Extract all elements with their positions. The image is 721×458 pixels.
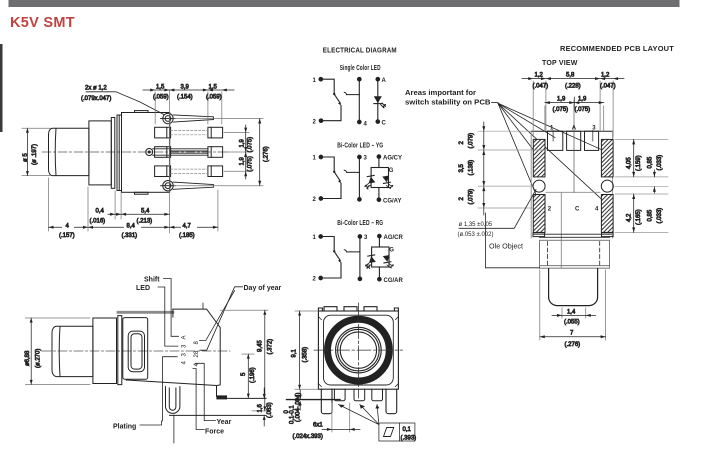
pad upper-right	[601, 139, 613, 177]
seating datum line	[287, 399, 341, 401]
svg-text:(.331): (.331)	[122, 233, 138, 239]
svg-text:AG/CY: AG/CY	[383, 155, 402, 161]
dim ø6,88	[25, 318, 90, 384]
svg-text:R: R	[366, 265, 371, 271]
svg-text:ELECTRICAL DIAGRAM: ELECTRICAL DIAGRAM	[323, 46, 397, 55]
button circle outer	[336, 327, 382, 373]
pcb top line	[227, 397, 267, 399]
schematic 2 : switch	[319, 155, 393, 202]
svg-text:(.059): (.059)	[206, 95, 222, 101]
Ole Object frame	[486, 213, 540, 268]
top tabs	[324, 307, 377, 311]
dimensions of top-left view	[22, 84, 270, 239]
body outline sides	[530, 131, 532, 238]
leader LED	[158, 287, 178, 346]
bottom dim row 0,4 / 5,4	[108, 191, 169, 219]
top row 1,2 / 5,8 / 1,2	[522, 77, 624, 137]
svg-text:3: 3	[182, 344, 188, 348]
svg-text:2: 2	[313, 277, 317, 283]
svg-text:Shift: Shift	[144, 277, 160, 284]
svg-text:5,4: 5,4	[141, 209, 150, 215]
svg-text:(.075): (.075)	[248, 156, 254, 172]
dim 6x1	[322, 403, 360, 432]
svg-text:(.033): (.033)	[657, 155, 663, 171]
dim 9,45	[221, 310, 269, 411]
svg-text:(ø.053 ±.002): (ø.053 ±.002)	[458, 232, 494, 238]
terminal row2 left	[155, 147, 171, 158]
svg-text:(.393): (.393)	[401, 436, 417, 442]
svg-text:1: 1	[313, 235, 317, 241]
leg right	[386, 389, 397, 414]
svg-text:0,1: 0,1	[403, 427, 412, 433]
pcb drawing	[531, 100, 613, 306]
peg centerline	[173, 415, 175, 443]
svg-text:CG/AR: CG/AR	[384, 278, 404, 284]
bezel plate	[123, 318, 148, 380]
svg-text:Bi-Color LED – YG: Bi-Color LED – YG	[337, 141, 383, 150]
svg-text:1,4: 1,4	[567, 309, 576, 315]
svg-text:2: 2	[459, 197, 465, 201]
terminal row1 right end	[208, 127, 223, 138]
node 2	[319, 119, 323, 123]
clip arm bottom	[173, 182, 213, 189]
LED window inner	[131, 334, 142, 369]
svg-text:ø 1,35 ±0,05: ø 1,35 ±0,05	[459, 222, 493, 228]
wire contact to common (with hook)	[344, 92, 359, 94]
svg-text:9,1: 9,1	[291, 348, 297, 357]
svg-text:(.024x.393): (.024x.393)	[293, 434, 323, 440]
svg-text:(.079): (.079)	[469, 133, 475, 149]
svg-text:6x1: 6x1	[313, 423, 323, 429]
button cap face line	[58, 326, 61, 376]
pad lower-left	[533, 195, 545, 233]
LED G (down)	[383, 255, 391, 263]
bezel ring 1	[111, 118, 115, 189]
bezel frame corners	[324, 315, 394, 385]
peg inner	[169, 388, 176, 410]
svg-text:0,4: 0,4	[96, 209, 105, 215]
schematic 1 : switch	[319, 77, 386, 123]
svg-text:1,5: 1,5	[156, 84, 165, 90]
crosshair	[314, 303, 403, 398]
svg-text:1,5: 1,5	[209, 84, 218, 90]
hole circle top (2x ø1,2)	[161, 113, 176, 123]
svg-text:9,45: 9,45	[257, 340, 263, 352]
common wire 4	[358, 79, 360, 122]
svg-text:3: 3	[364, 156, 368, 162]
svg-text:(.358): (.358)	[302, 347, 308, 363]
svg-text:2: 2	[313, 197, 317, 203]
svg-text:ø 5: ø 5	[23, 153, 29, 162]
svg-text:CG/AY: CG/AY	[383, 198, 401, 204]
terminal row2 right end	[208, 147, 223, 158]
foot 2	[354, 389, 365, 401]
terminal row3 right end	[208, 166, 223, 177]
svg-text:G: G	[389, 248, 394, 254]
left dims 2 / 3,5 / 2	[478, 122, 547, 215]
svg-text:1: 1	[313, 156, 317, 162]
dim 7 bottom	[540, 270, 606, 340]
bezel ring	[328, 319, 390, 381]
svg-text:(.157): (.157)	[59, 233, 75, 239]
wire pin1 to pivot	[321, 79, 334, 93]
svg-text:(.079): (.079)	[469, 189, 475, 205]
svg-text:A: A	[182, 335, 188, 339]
collar	[93, 318, 117, 384]
bi-color LED D2 package	[377, 155, 381, 159]
leader Force	[193, 369, 204, 430]
dim 5	[242, 354, 254, 398]
svg-text:2: 2	[313, 119, 317, 125]
actuator outline (gray)	[546, 192, 600, 268]
leader Year	[195, 363, 215, 420]
LED R (up)	[368, 255, 376, 263]
dim 1,4 bottom	[552, 308, 596, 318]
leg left	[321, 389, 332, 414]
svg-text:(.154): (.154)	[177, 95, 193, 101]
dim ø5 left	[22, 128, 50, 175]
svg-text:4,2: 4,2	[627, 213, 633, 222]
button cap	[52, 326, 93, 376]
header bar	[9, 0, 680, 7]
svg-text:(.033): (.033)	[657, 208, 663, 224]
svg-text:1,2: 1,2	[535, 73, 544, 79]
svg-text:2: 2	[459, 141, 465, 145]
svg-text:(.016): (.016)	[90, 219, 106, 225]
svg-text:3,9: 3,9	[181, 84, 190, 90]
button circle inner	[340, 332, 376, 368]
svg-text:0,85: 0,85	[647, 156, 653, 168]
leader Day of year (x2)	[200, 287, 243, 350]
svg-text:(.138): (.138)	[469, 160, 475, 176]
dims	[25, 310, 273, 426]
bi-color LED D3 package	[378, 234, 382, 238]
leader fan to pads	[492, 103, 611, 207]
svg-text:C: C	[575, 207, 580, 213]
wire blade to pin2	[323, 106, 342, 121]
svg-text:A: A	[572, 126, 577, 132]
svg-text:Bi-Color LED – RG: Bi-Color LED – RG	[337, 218, 383, 227]
svg-text:28: 28	[194, 350, 200, 357]
body top tab	[135, 111, 149, 113]
flatness frame with leaders	[339, 405, 415, 442]
svg-text:G: G	[389, 168, 394, 174]
svg-text:(.047): (.047)	[533, 84, 549, 90]
node C	[376, 120, 380, 124]
center line	[573, 100, 575, 192]
body outline top	[531, 130, 612, 132]
body bottom edge	[533, 233, 612, 235]
LED D1 anode wire	[376, 77, 380, 81]
hidden edges in flange	[548, 242, 600, 268]
svg-text:K5V SMT: K5V SMT	[10, 15, 75, 31]
svg-text:2: 2	[548, 207, 552, 213]
svg-text:1,9: 1,9	[240, 138, 246, 147]
svg-text:ø6,88: ø6,88	[25, 350, 31, 366]
bezel ring strip	[118, 316, 122, 385]
node 1	[319, 77, 323, 81]
svg-text:(ø .197): (ø .197)	[32, 144, 38, 165]
svg-text:(.079x.047): (.079x.047)	[81, 96, 111, 102]
pcb bottom line	[170, 414, 267, 416]
svg-text:Areas important for: Areas important for	[405, 90, 476, 97]
gray flange top band	[118, 311, 173, 314]
bezel ring 2	[117, 115, 122, 191]
foot 3	[372, 389, 383, 401]
body bottom tab	[135, 192, 149, 194]
svg-text:(.165): (.165)	[636, 209, 642, 225]
svg-text:1,9: 1,9	[240, 156, 246, 165]
svg-text:1,9: 1,9	[557, 97, 566, 103]
dims of pcb view	[459, 73, 668, 349]
svg-text:1,2: 1,2	[601, 73, 610, 79]
button below (U)	[549, 269, 598, 306]
hole circle bottom	[161, 181, 176, 191]
flange below	[540, 240, 610, 268]
svg-text:(.075): (.075)	[553, 107, 569, 113]
svg-text:(.159): (.159)	[636, 155, 642, 171]
svg-text:Single Color LED: Single Color LED	[340, 63, 381, 72]
right dims 4,05 / 0,85 / 4,2 / 0,85	[615, 139, 668, 232]
pin hole A	[567, 131, 581, 150]
pin hole 1	[548, 131, 563, 150]
hole right ø1,35	[601, 180, 613, 192]
node 4	[358, 120, 362, 124]
node top	[358, 77, 362, 81]
hole left ø1,35	[533, 180, 545, 192]
collar	[89, 121, 111, 185]
svg-text:0,85: 0,85	[647, 209, 653, 221]
right dim (.276)	[174, 119, 263, 186]
switch blade S1	[333, 93, 335, 95]
left page tab	[0, 44, 3, 132]
marking digits rotated	[182, 335, 201, 366]
svg-text:3,5: 3,5	[459, 163, 465, 172]
dim 1,6	[263, 388, 266, 426]
leader 3 lower	[163, 357, 178, 421]
svg-text:(.276): (.276)	[264, 146, 270, 162]
LED window outer	[128, 331, 144, 372]
hidden edges row3	[171, 169, 208, 173]
svg-text:(.059): (.059)	[153, 95, 169, 101]
schematic 3 : switch	[319, 234, 394, 281]
pad lower-right	[601, 195, 613, 233]
body	[122, 113, 170, 193]
body front	[318, 311, 398, 389]
svg-text:(.185): (.185)	[179, 233, 195, 239]
foot 1	[334, 389, 345, 401]
svg-text:A: A	[382, 78, 387, 84]
svg-text:(ø.270): (ø.270)	[36, 349, 42, 368]
button circle mid	[338, 329, 380, 371]
svg-text:Y: Y	[366, 186, 370, 192]
svg-text:(.276): (.276)	[565, 342, 581, 348]
svg-text:3: 3	[182, 353, 188, 357]
terminal row1 left	[155, 127, 171, 138]
hidden edges row1	[171, 131, 208, 135]
body outline	[126, 309, 220, 385]
svg-text:(.228): (.228)	[565, 84, 581, 90]
terminal row3 left	[155, 166, 171, 177]
svg-text:4,05: 4,05	[627, 157, 633, 169]
svg-text:Day of year: Day of year	[244, 285, 282, 292]
body right lower corner	[216, 386, 218, 397]
svg-text:(.372): (.372)	[267, 339, 273, 355]
svg-text:AG/CR: AG/CR	[384, 235, 404, 241]
foot step left	[533, 233, 545, 237]
leader Plating	[140, 421, 162, 425]
svg-text:4: 4	[364, 121, 368, 127]
svg-text:5: 5	[241, 372, 247, 376]
svg-text:LED: LED	[136, 285, 150, 292]
right dims 1,9 1,9	[224, 125, 249, 179]
peg outer	[166, 387, 180, 414]
svg-text:(.213): (.213)	[137, 219, 153, 225]
svg-text:4: 4	[182, 361, 188, 365]
center pin rivet	[146, 149, 153, 156]
foot step right	[602, 233, 614, 237]
svg-text:4,7: 4,7	[183, 224, 192, 230]
svg-text:1,6: 1,6	[258, 403, 264, 412]
svg-text:(.063): (.063)	[267, 402, 273, 418]
pad upper-left	[533, 139, 545, 177]
svg-text:Year: Year	[217, 419, 232, 426]
flange top edge	[540, 236, 610, 238]
svg-text:4: 4	[595, 207, 599, 213]
button cap face line	[54, 128, 57, 175]
svg-text:Plating: Plating	[113, 424, 136, 431]
svg-text:8: 8	[194, 341, 200, 345]
svg-text:2x ø 1,2: 2x ø 1,2	[85, 86, 107, 92]
svg-text:(.055): (.055)	[564, 320, 580, 326]
clip arm top	[173, 115, 213, 122]
svg-text:(.047): (.047)	[600, 84, 616, 90]
svg-text:(.004-.004): (.004-.004)	[296, 393, 302, 422]
svg-text:TOP VIEW: TOP VIEW	[542, 58, 578, 67]
svg-text:(.075): (.075)	[575, 107, 591, 113]
svg-text:switch stability on PCB: switch stability on PCB	[405, 100, 491, 107]
center pin shaft	[153, 149, 208, 155]
svg-text:1,9: 1,9	[578, 97, 587, 103]
leader Shift	[164, 279, 179, 337]
terminal foot right	[217, 396, 227, 399]
svg-text:7: 7	[570, 331, 574, 337]
dims	[284, 311, 416, 442]
centerline	[42, 350, 230, 352]
top dim row 1,5 / 3,9 / 1,5	[143, 89, 234, 234]
svg-text:(.075): (.075)	[248, 137, 254, 153]
svg-text:(.196): (.196)	[250, 367, 256, 383]
svg-text:RECOMMENDED PCB LAYOUT: RECOMMENDED PCB LAYOUT	[560, 44, 674, 53]
svg-text:3: 3	[364, 235, 368, 241]
LED D1	[374, 96, 382, 103]
button cap	[49, 128, 89, 175]
LED G (down)	[382, 175, 390, 183]
svg-text:1: 1	[313, 78, 317, 84]
svg-text:Ole Object: Ole Object	[489, 242, 523, 251]
svg-text:C: C	[382, 120, 387, 126]
LED Y (up)	[367, 175, 375, 183]
dim 9,1	[295, 311, 318, 389]
row 1,9 / 1,9	[545, 97, 604, 131]
pin hole 3	[585, 131, 599, 150]
svg-text:5,8: 5,8	[566, 73, 575, 79]
dim 0,1-0,1	[299, 390, 302, 410]
svg-text:8,4: 8,4	[127, 224, 136, 230]
centerline	[42, 151, 228, 153]
svg-text:Force: Force	[205, 429, 224, 436]
bottom dim row 4 / 8,4 / 4,7	[49, 178, 218, 231]
